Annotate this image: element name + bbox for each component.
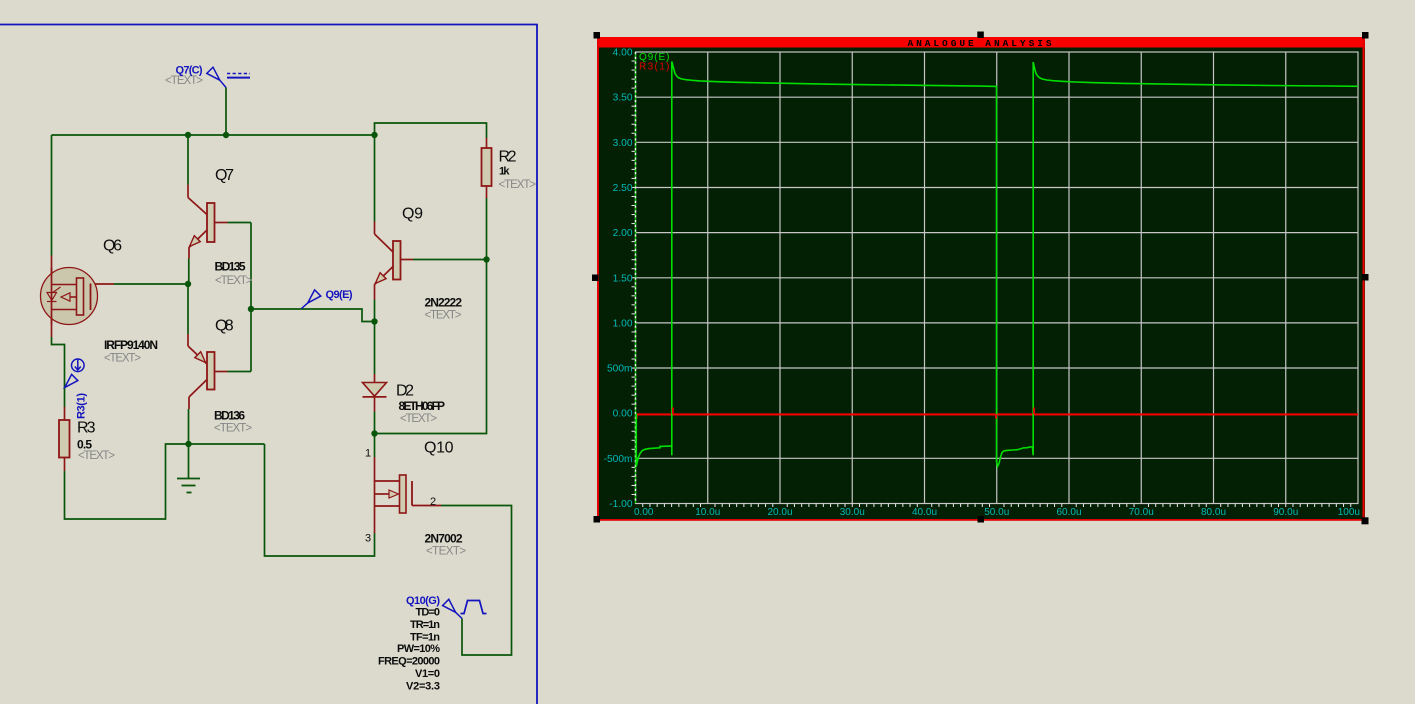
graph y-axis ticks (632, 61, 636, 494)
generator params (378, 607, 440, 693)
svg-text:1: 1 (365, 448, 371, 460)
trace Q9(E) green (636, 62, 1358, 467)
value IRFP9140N (104, 338, 158, 352)
svg-text:<TEXT>: <TEXT> (499, 179, 537, 191)
generator Q10(G) probe (443, 599, 462, 618)
svg-text:10.0u: 10.0u (695, 507, 720, 518)
transistor Q7 base pin (214, 222, 251, 224)
diode D2 (363, 383, 387, 397)
svg-text:4.00: 4.00 (613, 48, 633, 59)
svg-text:BD135: BD135 (215, 260, 246, 274)
junction dots (185, 132, 490, 447)
svg-text:1k: 1k (499, 166, 510, 178)
value 8ETH06FP (399, 399, 446, 413)
label R3 (77, 420, 96, 437)
mosfet Q10 (375, 475, 413, 513)
transistor Q9 body bar (393, 241, 401, 280)
transistor Q9 emitter pin (375, 267, 394, 322)
svg-text:3.50: 3.50 (613, 93, 633, 104)
Q10 source pin (374, 506, 376, 533)
pin number 3 (365, 533, 371, 545)
value BD135 (215, 260, 246, 274)
svg-text:V2=3.3: V2=3.3 (406, 681, 440, 693)
selection handles (592, 32, 1369, 525)
svg-text:BD136: BD136 (214, 409, 245, 423)
graph plot frame (636, 52, 1359, 504)
generator label Q10(G) (406, 595, 440, 607)
sheet border right (536, 25, 538, 704)
probe Q9(E) (302, 290, 321, 309)
svg-text:90.0u: 90.0u (1273, 507, 1298, 518)
svg-text:<TEXT>: <TEXT> (78, 450, 115, 462)
transistor Q9 base pin (400, 259, 487, 261)
svg-text:2.00: 2.00 (613, 228, 633, 239)
graph y-axis dashed (635, 52, 637, 504)
mosfet Q6 gate wire (91, 283, 188, 285)
graph x-axis ticks (643, 504, 1351, 508)
svg-text:<TEXT>: <TEXT> (165, 75, 203, 87)
svg-text:500m: 500m (607, 364, 632, 375)
wire base tie Q7-Q8 (250, 223, 252, 372)
svg-text:<TEXT>: <TEXT> (104, 353, 141, 365)
svg-text:Q9: Q9 (402, 206, 423, 223)
svg-text:TR=1n: TR=1n (410, 619, 440, 631)
label Q7 (215, 167, 234, 184)
transistor Q7 emitter arrow (190, 236, 201, 247)
svg-text:<TEXT>: <TEXT> (215, 275, 253, 287)
wire top rail (52, 134, 375, 136)
svg-text:FREQ=20000: FREQ=20000 (378, 656, 440, 668)
probe R3(1) (65, 359, 84, 387)
graph x labels (634, 507, 1360, 518)
svg-text:Q7(C): Q7(C) (176, 65, 203, 77)
svg-text:R3(1): R3(1) (76, 393, 88, 419)
graph title (907, 38, 1054, 49)
svg-text:0.00: 0.00 (634, 507, 654, 518)
graph background (597, 37, 1365, 521)
transistor Q7 emitter pin (189, 230, 208, 285)
probe label R3(1) rotated (76, 393, 88, 419)
svg-text:Q9(E): Q9(E) (326, 289, 353, 301)
svg-text:2N7002: 2N7002 (425, 532, 463, 546)
svg-text:2N2222: 2N2222 (425, 296, 463, 310)
svg-text:0.00: 0.00 (613, 409, 633, 420)
transistor Q8 base pin (214, 371, 251, 373)
wire R3 bottom loop to node A (65, 444, 265, 519)
label D2 (396, 383, 414, 400)
transistor Q8 collector pin (189, 379, 208, 444)
trace R3(1) red spikes (673, 408, 1034, 419)
svg-text:30.0u: 30.0u (840, 507, 865, 518)
svg-text:50.0u: 50.0u (984, 507, 1009, 518)
graph gridlines (636, 52, 1359, 504)
svg-text:8ETH06FP: 8ETH06FP (399, 399, 446, 413)
value 1k (499, 166, 510, 178)
svg-text:D2: D2 (396, 383, 414, 400)
transistor Q8 emitter pin (188, 284, 208, 365)
svg-text:TF=1n: TF=1n (410, 632, 440, 644)
svg-text:V1=0: V1=0 (415, 668, 440, 680)
svg-text:2: 2 (430, 496, 436, 508)
transistor Q7 body bar (207, 203, 215, 242)
wire probe Q7(C) stub (225, 88, 227, 136)
svg-text:100u: 100u (1338, 507, 1360, 518)
svg-text:40.0u: 40.0u (912, 507, 937, 518)
placeholder TEXT labels gray (78, 75, 536, 558)
svg-text:60.0u: 60.0u (1056, 507, 1081, 518)
wire Q6 source elbow to R3 (52, 345, 65, 408)
wire node down to Q10 drain branch (375, 260, 487, 434)
svg-text:80.0u: 80.0u (1201, 507, 1226, 518)
transistor Q7 collector pin (188, 135, 208, 215)
svg-text:-1.00: -1.00 (609, 499, 633, 510)
svg-text:Q7: Q7 (215, 167, 234, 184)
graph y labels (604, 48, 633, 511)
label R2 (499, 149, 517, 166)
wire bases to Q9 emitter node (251, 309, 375, 322)
svg-text:-500m: -500m (604, 454, 633, 465)
svg-text:2.50: 2.50 (613, 183, 633, 194)
svg-text:<TEXT>: <TEXT> (400, 413, 437, 425)
svg-text:<TEXT>: <TEXT> (425, 310, 462, 322)
svg-text:ANALOGUE ANALYSIS: ANALOGUE ANALYSIS (907, 38, 1054, 49)
svg-text:Q8: Q8 (215, 318, 234, 335)
graph legend (639, 52, 670, 73)
sheet border top (0, 24, 538, 26)
svg-text:<TEXT>: <TEXT> (426, 546, 466, 558)
mosfet Q6 (41, 268, 98, 325)
svg-text:IRFP9140N: IRFP9140N (104, 338, 158, 352)
probe Q7(C) (207, 67, 250, 87)
svg-text:R3: R3 (77, 420, 96, 437)
svg-text:20.0u: 20.0u (767, 507, 792, 518)
Q10 gate pin wire (412, 506, 512, 656)
resistor R3 pins (64, 407, 66, 471)
svg-text:3.00: 3.00 (613, 138, 633, 149)
transistor Q9 collector pin (375, 135, 394, 252)
svg-text:R2: R2 (499, 149, 517, 166)
resistor R2 pins (486, 138, 488, 198)
svg-text:70.0u: 70.0u (1129, 507, 1154, 518)
transistor Q8 emitter arrow (195, 352, 206, 363)
wire D2 branch (374, 322, 376, 482)
label Q8 (215, 318, 234, 335)
svg-text:Q6: Q6 (103, 238, 122, 255)
value 0.5 (77, 438, 92, 452)
svg-text:1.00: 1.00 (613, 318, 633, 329)
svg-text:Q10(G): Q10(G) (406, 595, 440, 607)
generator pulse icon (461, 601, 487, 614)
ground (177, 444, 200, 493)
pin number 1 (365, 448, 371, 460)
label Q6 (103, 238, 122, 255)
label Q10 (424, 440, 454, 457)
svg-text:<TEXT>: <TEXT> (214, 423, 252, 435)
pin number 2 (430, 496, 436, 508)
resistor R3 body (59, 420, 70, 458)
probe label Q7(C) (176, 65, 203, 77)
svg-text:1.50: 1.50 (613, 273, 633, 284)
svg-text:TD=0: TD=0 (416, 607, 441, 619)
trace R3(1) red (636, 414, 1358, 419)
wire node A down to Q10 source (265, 444, 375, 556)
value BD136 (214, 409, 245, 423)
wire R2 bottom to Q9 base node (486, 198, 488, 260)
label Q9 (402, 206, 423, 223)
value 2N7002 (425, 532, 463, 546)
wire top jog to R2 (375, 123, 487, 138)
svg-text:Q10: Q10 (424, 440, 454, 457)
probe label Q9(E) (326, 289, 353, 301)
transistor Q8 body bar (207, 352, 215, 390)
resistor R2 body (482, 148, 492, 186)
wire left drop to Q6 (51, 135, 53, 345)
transistor Q9 emitter arrow (375, 273, 386, 284)
svg-text:3: 3 (365, 533, 371, 545)
svg-text:PW=10%: PW=10% (397, 643, 440, 655)
value 2N2222 (425, 296, 463, 310)
